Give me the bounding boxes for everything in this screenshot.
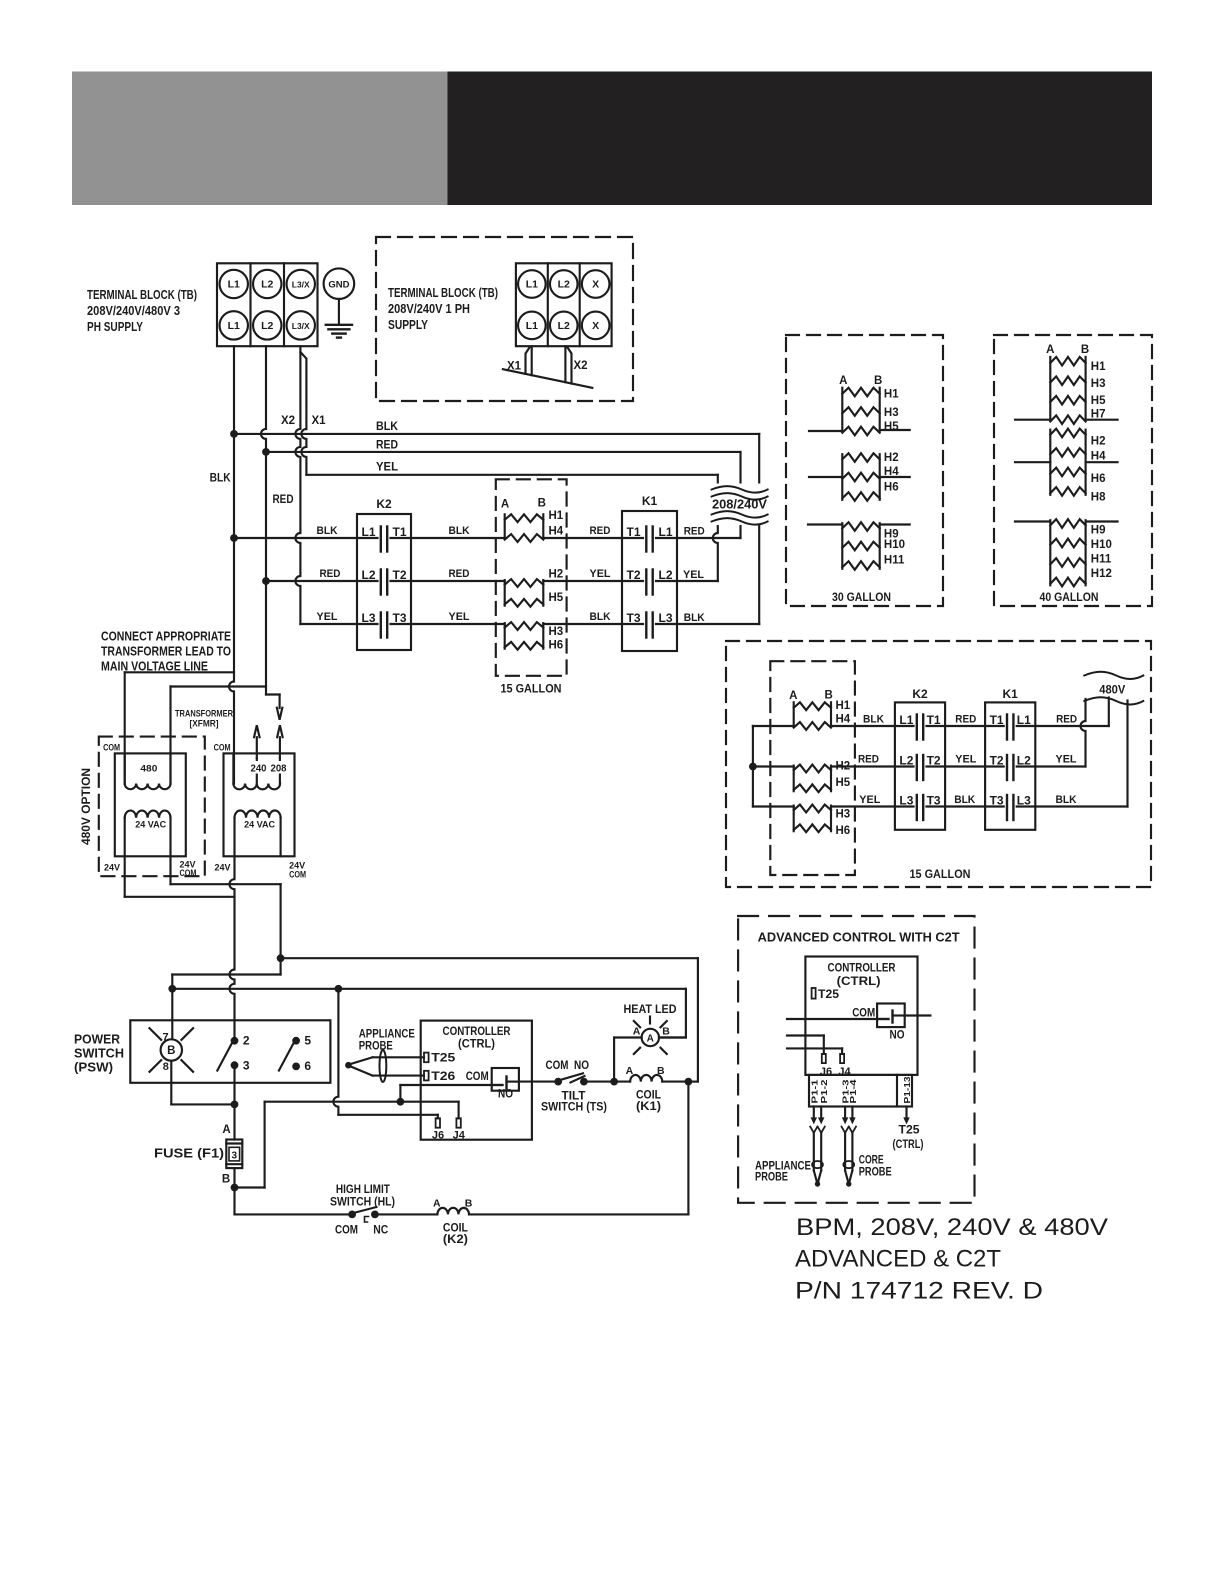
label fuse B (222, 1174, 230, 1186)
wire row1 BLK to K2 (234, 537, 357, 539)
dashed box 15 gallon 480V (726, 641, 1151, 887)
svg-text:SUPPLY: SUPPLY (388, 317, 428, 332)
svg-text:H1: H1 (884, 389, 899, 401)
svg-text:H1: H1 (549, 510, 564, 522)
svg-text:H5: H5 (1091, 395, 1106, 407)
node relay COM J4 junction (397, 1098, 405, 1106)
pin J4 (C2T) (840, 1054, 844, 1063)
terminal block TB2 (1 phase) (516, 263, 612, 346)
svg-text:T2: T2 (990, 754, 1004, 768)
wire fuseB to HL (235, 1213, 350, 1215)
label TB1 (87, 287, 197, 334)
svg-text:A: A (626, 1065, 634, 1077)
wire RED return horizontal (677, 537, 741, 539)
svg-text:H8: H8 (1091, 492, 1106, 504)
svg-text:H1: H1 (1091, 361, 1106, 373)
label YEL right of K1 (683, 569, 704, 581)
svg-text:YEL: YEL (859, 794, 880, 806)
svg-text:PROBE: PROBE (755, 1172, 788, 1184)
svg-text:L2: L2 (558, 320, 570, 332)
wire lamp feed (172, 958, 280, 989)
heat LED lamp (633, 1021, 671, 1054)
svg-text:24V: 24V (215, 863, 232, 874)
svg-text:L1: L1 (526, 279, 538, 291)
node L1-BLK junction (230, 430, 238, 438)
svg-text:K2: K2 (376, 497, 392, 511)
svg-text:(CTRL): (CTRL) (893, 1139, 924, 1151)
wire L1 BLK vertical (229, 346, 234, 783)
svg-text:PROBE: PROBE (359, 1041, 393, 1053)
svg-text:B: B (662, 1026, 670, 1038)
svg-text:208/240V: 208/240V (712, 497, 767, 512)
label RED row1 mid2 (590, 525, 611, 537)
svg-text:SWITCH: SWITCH (74, 1046, 124, 1061)
ground GND (324, 268, 355, 337)
svg-text:ADVANCED & C2T: ADVANCED & C2T (795, 1246, 1001, 1273)
node L2-RED junction (262, 448, 270, 456)
label connect transformer note (101, 629, 231, 674)
svg-text:BLK: BLK (863, 714, 884, 726)
svg-text:HEAT LED: HEAT LED (624, 1004, 677, 1016)
svg-text:NO: NO (498, 1089, 513, 1101)
label CORE PROBE (C2T) (859, 1155, 892, 1179)
wire coil return vertical (687, 1082, 689, 1215)
svg-text:L2: L2 (261, 279, 273, 291)
label P1-3 (841, 1079, 851, 1103)
svg-text:BLK: BLK (317, 525, 338, 537)
svg-text:SWITCH (TS): SWITCH (TS) (541, 1102, 607, 1114)
wire relay in stub (C2T) (787, 1018, 877, 1020)
svg-text:T25: T25 (431, 1051, 455, 1065)
svg-text:H6: H6 (549, 640, 564, 652)
svg-text:A: A (839, 375, 847, 387)
label row left RED (320, 568, 341, 580)
wire 480 left bus (753, 726, 794, 807)
svg-text:P/N 174712 REV. D: P/N 174712 REV. D (795, 1278, 1043, 1305)
svg-text:RED: RED (1056, 714, 1077, 726)
label 480 RED mid (955, 714, 976, 726)
svg-text:H6: H6 (836, 825, 851, 837)
label TB2 (388, 285, 498, 332)
svg-text:15 GALLON: 15 GALLON (910, 869, 971, 881)
svg-text:X: X (592, 320, 599, 332)
label ADVANCED CONTROL WITH C2T (758, 930, 960, 945)
label YEL row2 mid2 (590, 568, 611, 580)
dashed box 480V elements (770, 661, 855, 875)
label APPLIANCE PROBE (C2T) (755, 1160, 811, 1183)
svg-text:J6: J6 (432, 1129, 444, 1141)
wire lamp top lead (171, 989, 173, 1039)
header gray banner (72, 72, 448, 206)
svg-text:T25: T25 (899, 1125, 921, 1137)
wire 40gal group3 leads (1015, 520, 1118, 522)
controller CTRL box (C2T) (805, 957, 917, 1075)
wire K2-T2 to heater (411, 580, 505, 582)
label 480 RED row2 (858, 754, 879, 766)
svg-text:NO: NO (574, 1060, 589, 1072)
contactor K2 (480V) (895, 687, 945, 830)
label NO relay (C2T) (890, 1030, 905, 1042)
svg-text:H3: H3 (1091, 378, 1106, 390)
label A 480 elem (789, 690, 797, 702)
wire xfmr 480 line2 (171, 687, 267, 784)
svg-text:L1: L1 (228, 320, 240, 332)
svg-text:208V/240V/480V 3: 208V/240V/480V 3 (87, 303, 180, 318)
svg-text:3: 3 (243, 1059, 250, 1073)
node L2-K2 row2 junction (262, 577, 270, 585)
svg-text:X: X (592, 279, 599, 291)
svg-text:K1: K1 (1003, 687, 1019, 701)
arrow down supply (277, 708, 283, 720)
svg-text:PROBE: PROBE (859, 1167, 892, 1179)
pin T25 (C2T) (812, 988, 840, 1001)
svg-text:L3: L3 (1017, 794, 1031, 808)
svg-text:B: B (167, 1045, 175, 1057)
label 24V COM mainxfmr (289, 861, 306, 881)
label HEAT LED (624, 1004, 677, 1024)
label 24V mainxfmr (215, 863, 232, 874)
wire row2 RED to K2 (266, 580, 357, 582)
svg-text:B: B (825, 690, 833, 702)
label A elem (501, 499, 509, 511)
label 480V OPTION (79, 768, 93, 845)
svg-text:H10: H10 (884, 539, 905, 551)
svg-text:T1: T1 (927, 713, 941, 727)
dashed box 40 gallon (994, 335, 1152, 606)
heater H2 H5 (505, 568, 564, 607)
svg-text:T2: T2 (927, 754, 941, 768)
svg-text:COM: COM (546, 1060, 569, 1072)
label 480 YEL mid (955, 754, 976, 766)
svg-text:L1: L1 (658, 525, 672, 539)
svg-text:L3: L3 (658, 611, 672, 625)
title text (795, 1214, 1108, 1305)
svg-text:COM: COM (466, 1071, 489, 1083)
svg-text:COM: COM (180, 868, 197, 879)
pin J6 (436, 1118, 440, 1127)
svg-text:8: 8 (163, 1061, 169, 1073)
svg-text:NC: NC (373, 1225, 388, 1237)
label YEL row3 mid (449, 611, 470, 623)
svg-text:24 VAC: 24 VAC (244, 820, 275, 831)
svg-text:480V OPTION: 480V OPTION (79, 768, 93, 845)
label BLK row1 mid (449, 525, 470, 537)
header black banner (448, 72, 1153, 206)
label transformer xfmr (175, 709, 233, 730)
label COM relay (466, 1071, 489, 1083)
svg-text:COIL: COIL (636, 1090, 661, 1102)
wire relay to tilt COM (519, 1081, 555, 1083)
label J6 J4 (432, 1129, 466, 1141)
switch contacts 5 6 (279, 1034, 312, 1073)
label 30 GALLON (832, 592, 891, 604)
label BLK right of K1 (684, 612, 705, 624)
svg-text:YEL: YEL (317, 611, 338, 623)
wire heater to K1-T2 (543, 580, 622, 582)
wire contact3 to fuse (233, 1065, 235, 1139)
wire 480 K2-K1 row2 (945, 765, 985, 767)
pin J4 (456, 1118, 460, 1127)
svg-text:30 GALLON: 30 GALLON (832, 592, 891, 604)
switch contacts 2 3 (217, 1034, 250, 1073)
label RED vertical (273, 494, 294, 506)
svg-text:T1: T1 (392, 525, 406, 539)
appliance probe symbol (345, 1050, 424, 1082)
svg-text:H5: H5 (549, 592, 564, 604)
svg-text:B: B (1081, 344, 1089, 356)
svg-text:NO: NO (890, 1030, 905, 1042)
label 15 GALLON (501, 684, 562, 696)
svg-text:(CTRL): (CTRL) (837, 976, 881, 988)
svg-text:YEL: YEL (449, 611, 470, 623)
wire RED top line (266, 440, 741, 452)
wire 480 row1 to K2 (831, 725, 895, 727)
wire tilt NO to coil (584, 1081, 630, 1083)
label X1 (312, 415, 327, 427)
heater 480 H2 H5 (794, 760, 851, 792)
label COM mainxfmr (214, 742, 231, 753)
wire 24VCOM tie (171, 856, 281, 884)
svg-text:H5: H5 (836, 777, 851, 789)
svg-text:L1: L1 (1017, 713, 1031, 727)
contactor K1 (622, 494, 677, 651)
cable marker 208/240V (709, 484, 770, 526)
svg-text:YEL: YEL (683, 569, 704, 581)
svg-text:L3: L3 (362, 611, 376, 625)
wire heater to K1-T1 (543, 537, 622, 539)
svg-text:H3: H3 (836, 809, 851, 821)
svg-text:YEL: YEL (590, 568, 611, 580)
svg-text:RED: RED (320, 568, 341, 580)
dashed box 30 gallon (786, 335, 943, 606)
svg-text:B: B (465, 1198, 473, 1210)
svg-text:CORE: CORE (859, 1155, 884, 1167)
svg-text:L1: L1 (899, 713, 913, 727)
svg-text:K2: K2 (912, 687, 928, 701)
svg-text:L1: L1 (362, 525, 376, 539)
contactor K2 (357, 497, 411, 650)
label T25 CTRL (893, 1125, 924, 1152)
svg-text:A: A (633, 1026, 641, 1038)
label P1-4 (848, 1079, 858, 1103)
svg-text:BLK: BLK (376, 421, 399, 433)
coil K2 (433, 1198, 473, 1246)
svg-text:24V: 24V (104, 863, 121, 874)
wire RED return vertical (739, 452, 741, 538)
wire 24V tie (125, 856, 235, 897)
svg-text:H4: H4 (1091, 451, 1106, 463)
svg-text:H5: H5 (884, 421, 899, 433)
svg-text:T1: T1 (990, 713, 1004, 727)
svg-text:X2: X2 (574, 360, 588, 372)
svg-text:H3: H3 (549, 626, 564, 638)
svg-text:(PSW): (PSW) (74, 1060, 113, 1075)
tilt switch TS (541, 1060, 607, 1114)
pin T25 (424, 1051, 456, 1065)
svg-text:X1: X1 (507, 361, 522, 373)
wire 40gal group2 leads (1015, 461, 1118, 463)
svg-text:COM: COM (214, 742, 231, 753)
wire 24VCOM lead down (280, 884, 282, 958)
wire 24V lead down (230, 856, 235, 1040)
svg-text:H2: H2 (884, 452, 899, 464)
svg-text:P1-13: P1-13 (902, 1076, 912, 1103)
heater 30gal H9 H10 H11 (842, 522, 905, 570)
transformer main 240/208 (224, 753, 295, 856)
svg-text:208: 208 (271, 764, 287, 775)
wire BLK top line (234, 421, 759, 434)
wire YEL top line (306, 462, 717, 475)
label 480 YEL row3 (859, 794, 880, 806)
heater 40gal H9 H10 H11 H12 (1050, 519, 1112, 586)
svg-text:COM: COM (289, 870, 306, 881)
node L1-K2 row1 junction (230, 534, 238, 542)
label 40 GALLON (1040, 592, 1099, 604)
wire branch to J4 (458, 1102, 460, 1119)
svg-text:T3: T3 (990, 794, 1004, 808)
label B 40gal (1081, 344, 1089, 356)
svg-text:TERMINAL BLOCK (TB): TERMINAL BLOCK (TB) (388, 285, 498, 300)
wire branch to relay COM (400, 1085, 491, 1102)
arrow up 240 (254, 725, 259, 758)
svg-text:BLK: BLK (449, 525, 470, 537)
svg-text:T26: T26 (431, 1069, 455, 1083)
svg-text:H11: H11 (1091, 554, 1112, 566)
node lamp rail2 junction (168, 985, 176, 993)
svg-text:L2: L2 (899, 754, 913, 768)
label 480 RED out (1056, 714, 1077, 726)
wire 40gal group1 leads (1015, 419, 1118, 421)
label NO relay (498, 1089, 513, 1101)
svg-text:15 GALLON: 15 GALLON (501, 684, 562, 696)
svg-text:(K2): (K2) (443, 1234, 468, 1246)
wire 480 row3 to K2 (831, 805, 895, 807)
wire YEL return vertical (677, 475, 718, 581)
wire LED B lead (659, 1036, 686, 1038)
label POWER SWITCH (PSW) (74, 1032, 124, 1075)
wire rail2 to J6 (333, 989, 437, 1119)
label RED row2 mid (449, 568, 470, 580)
dashed box 1PH supply option (376, 237, 633, 401)
terminal block TB1 (3 phase) (217, 263, 318, 346)
label J6 J4 (C2T) (820, 1066, 852, 1078)
svg-text:BPM, 208V, 240V & 480V: BPM, 208V, 240V & 480V (796, 1214, 1108, 1241)
label 480 BLK row1 (863, 714, 884, 726)
dashed box ADVANCED CONTROL WITH C2T (738, 916, 974, 1203)
label A 30gal (839, 375, 847, 387)
svg-text:H10: H10 (1091, 539, 1112, 551)
wire LED A lead (614, 1038, 642, 1082)
dashed box 480V option (99, 737, 205, 877)
svg-text:L3: L3 (899, 794, 913, 808)
wire K2-T1 to heater (411, 537, 505, 539)
wire row3 YEL to K2 (300, 623, 357, 625)
svg-text:X2: X2 (281, 415, 295, 427)
svg-text:CONNECT APPROPRIATE: CONNECT APPROPRIATE (101, 629, 231, 644)
svg-text:3: 3 (232, 1150, 238, 1161)
svg-text:L2: L2 (558, 279, 570, 291)
svg-text:H4: H4 (836, 713, 851, 725)
controller CTRL box (421, 1021, 532, 1140)
svg-text:40 GALLON: 40 GALLON (1040, 592, 1099, 604)
svg-text:T2: T2 (392, 568, 406, 582)
svg-text:L1: L1 (228, 279, 240, 291)
wire fuseB to relay (235, 1102, 459, 1188)
heater H1 H4 (505, 510, 564, 542)
wire rail2 (172, 989, 686, 1038)
wire L2 RED vertical (261, 346, 266, 694)
label P1-1 (809, 1079, 819, 1103)
svg-text:B: B (874, 375, 882, 387)
wire X1 lead (300, 352, 306, 475)
label X2 (281, 415, 295, 427)
cable marker 480V (1084, 672, 1143, 705)
svg-text:T1: T1 (627, 525, 641, 539)
label 24V COM 480xfmr (180, 860, 197, 879)
wire 480 row1 out (1035, 698, 1109, 727)
svg-text:COM: COM (335, 1225, 358, 1237)
relay contact in controller (C2T) (877, 1004, 905, 1028)
wire coil K2 return (469, 1213, 688, 1215)
wire 480 row3 out (1035, 701, 1127, 807)
svg-text:B: B (222, 1174, 230, 1186)
pin J6 (C2T) (822, 1054, 826, 1063)
svg-text:6: 6 (304, 1059, 311, 1073)
svg-text:TERMINAL BLOCK (TB): TERMINAL BLOCK (TB) (87, 287, 197, 302)
svg-text:L2: L2 (362, 568, 376, 582)
arrow T25 (C2T) (903, 1107, 910, 1125)
svg-text:480V: 480V (1099, 685, 1125, 697)
arrow up 208 (277, 725, 283, 758)
relay contact in controller (492, 1068, 519, 1091)
pin T26 (424, 1069, 456, 1083)
svg-text:H6: H6 (884, 482, 899, 494)
svg-text:ADVANCED CONTROL WITH C2T: ADVANCED CONTROL WITH C2T (758, 930, 960, 945)
heater 40gal H1 H3 H5 H7 (1050, 357, 1106, 424)
wire 30gal group1 leads (809, 430, 910, 431)
node 480 left bus junction (749, 763, 757, 771)
svg-text:SWITCH (HL): SWITCH (HL) (330, 1197, 395, 1209)
wire fuse B down (233, 1168, 235, 1214)
svg-text:(K1): (K1) (636, 1101, 661, 1113)
svg-text:A: A (789, 690, 797, 702)
heater 480 H1 H4 (794, 699, 851, 730)
svg-text:2: 2 (243, 1034, 250, 1048)
svg-text:T25: T25 (818, 989, 840, 1001)
svg-text:YEL: YEL (376, 462, 398, 474)
wire J4 stub (C2T) (787, 1048, 842, 1054)
svg-text:B: B (538, 498, 546, 510)
coil K1 (626, 1065, 665, 1113)
svg-text:L3/X: L3/X (292, 280, 310, 290)
svg-text:K1: K1 (642, 494, 658, 508)
svg-text:H2: H2 (1091, 436, 1106, 448)
svg-text:APPLIANCE: APPLIANCE (755, 1160, 811, 1172)
heater 30gal H2 H4 H6 (842, 452, 899, 501)
svg-text:YEL: YEL (955, 754, 976, 766)
label A 40gal (1046, 344, 1054, 356)
svg-text:(CTRL): (CTRL) (458, 1039, 495, 1051)
svg-text:L3/X: L3/X (292, 321, 310, 331)
svg-text:RED: RED (449, 568, 470, 580)
contactor K1 (480V) (985, 687, 1035, 830)
wire 30gal group3 leads (808, 523, 910, 525)
label COM 480xfmr (103, 742, 120, 753)
svg-text:BLK: BLK (954, 794, 975, 806)
TB2 leads X1 X2 with cut mark (503, 346, 592, 388)
svg-text:H4: H4 (549, 526, 564, 538)
svg-text:J4: J4 (838, 1066, 851, 1078)
